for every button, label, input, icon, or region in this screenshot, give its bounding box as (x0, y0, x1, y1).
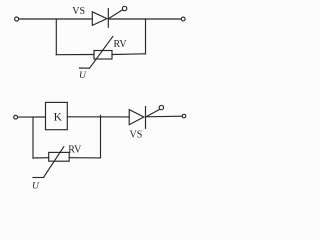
svg-text:VS: VS (130, 130, 143, 141)
wire (33, 157, 49, 159)
wire (146, 115, 183, 118)
terminal left (top circuit) (15, 17, 19, 21)
wire (112, 53, 146, 56)
gate terminal (top VS) (122, 6, 126, 10)
thyristor VS (bottom) (129, 107, 159, 129)
svg-text:U: U (32, 181, 40, 191)
wire (67, 116, 129, 118)
wire (19, 18, 93, 20)
gate terminal (bottom VS) (159, 105, 163, 109)
thyristor VS (top) (92, 9, 122, 28)
svg-text:RV: RV (114, 39, 128, 50)
svg-text:U: U (79, 71, 87, 81)
wire (55, 19, 57, 55)
wire (108, 18, 181, 20)
terminal left (bottom circuit) (14, 115, 18, 119)
wire (69, 157, 100, 159)
relay coil K (46, 102, 68, 129)
wire (56, 54, 94, 56)
varistor RV (top) (80, 37, 113, 69)
svg-text:K: K (54, 111, 63, 123)
wire (32, 117, 34, 158)
wire (18, 116, 46, 118)
varistor RV (bottom) (33, 147, 69, 178)
svg-text:VS: VS (72, 6, 85, 17)
svg-text:RV: RV (68, 144, 82, 155)
wire (145, 19, 147, 54)
terminal right (top circuit) (181, 17, 185, 21)
wire (100, 116, 102, 158)
terminal right (bottom circuit) (182, 114, 186, 118)
